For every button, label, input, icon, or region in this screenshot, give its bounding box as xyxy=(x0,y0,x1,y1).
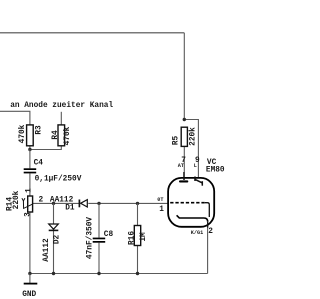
svg-text:2: 2 xyxy=(39,197,44,205)
potentiometer R14 xyxy=(28,196,33,212)
wire bottom ground rail xyxy=(30,273,208,275)
svg-text:0T: 0T xyxy=(157,197,163,203)
wire C8 bottom plate to ground rail xyxy=(98,243,100,274)
svg-text:1: 1 xyxy=(25,188,33,193)
resistor R16 xyxy=(134,226,140,246)
capacitor C4 xyxy=(24,168,37,170)
capacitor C8 xyxy=(93,238,106,240)
svg-text:an Anode zueiter Kanal: an Anode zueiter Kanal xyxy=(10,102,113,110)
tube pin 1 grid (dashed) xyxy=(170,202,205,204)
svg-text:3: 3 xyxy=(24,212,32,217)
wire C4 bottom plate to R14 xyxy=(29,173,31,196)
tube pin 9 deflection electrode xyxy=(194,177,196,182)
node junction ground rail left xyxy=(28,272,31,275)
node junction R16 bottom xyxy=(136,272,139,275)
svg-text:220k: 220k xyxy=(13,190,21,209)
wire open stub to R4 top (an Anode zweiter Kanal) xyxy=(60,112,62,125)
svg-text:C8: C8 xyxy=(104,231,114,239)
svg-text:R16: R16 xyxy=(128,231,136,245)
svg-text:R3: R3 xyxy=(35,125,43,135)
svg-text:R4: R4 xyxy=(52,130,60,140)
wire R3 bottom to node xyxy=(29,146,31,150)
svg-text:D2: D2 xyxy=(53,235,61,245)
wire D1 cathode to tube pin 1 xyxy=(88,202,168,204)
svg-text:470k: 470k xyxy=(64,126,72,145)
svg-text:EM80: EM80 xyxy=(206,167,225,175)
svg-text:47nF/350V: 47nF/350V xyxy=(86,217,94,259)
wire branch to tube pin 9 xyxy=(184,120,198,179)
svg-text:VC: VC xyxy=(207,159,217,167)
svg-text:AA112: AA112 xyxy=(50,197,74,205)
resistor R4 xyxy=(58,125,65,146)
svg-text:1M: 1M xyxy=(140,232,148,242)
node junction R3/R4/C4 xyxy=(28,148,31,151)
tube cathode xyxy=(177,215,208,222)
node junction C8 bottom xyxy=(97,272,100,275)
svg-text:1: 1 xyxy=(159,206,164,214)
diode D2 xyxy=(49,224,59,229)
wire tube pin 2 to ground rail xyxy=(207,227,209,274)
svg-text:C4: C4 xyxy=(34,160,44,168)
node junction D2 top xyxy=(52,202,55,205)
wire R5 bottom to tube pin 7 xyxy=(183,146,185,180)
diode D1 xyxy=(81,200,88,207)
wire R16 bottom to ground rail xyxy=(137,246,139,274)
wire R4 bottom to node xyxy=(30,146,61,150)
node junction at R5 top xyxy=(183,118,186,121)
svg-text:R5: R5 xyxy=(172,136,180,146)
tube pin 7 stub and triode anode plate xyxy=(183,172,185,180)
wire R14 wiper to D1 anode xyxy=(33,202,80,204)
wire from left edge to R3 top xyxy=(0,111,30,125)
tube grid 1 hook to pin 2 xyxy=(205,203,210,217)
ground xyxy=(29,274,31,284)
svg-text:0,1µF/250V: 0,1µF/250V xyxy=(35,176,82,184)
wire node to C8 top plate xyxy=(98,203,100,237)
svg-text:220k: 220k xyxy=(189,127,197,146)
wire node to C4 top plate xyxy=(29,150,31,169)
svg-text:D1: D1 xyxy=(65,204,75,212)
svg-text:AA112: AA112 xyxy=(43,238,51,262)
wire node to R16 top xyxy=(137,203,139,225)
node junction C8 top xyxy=(97,202,100,205)
resistor R3 xyxy=(27,125,34,146)
tube pin 2 stub xyxy=(207,222,209,228)
wire node to D2 anode xyxy=(53,203,55,224)
svg-text:2: 2 xyxy=(208,228,213,236)
wire vertical drop to R5 node xyxy=(183,33,185,120)
svg-text:470k: 470k xyxy=(19,124,27,143)
node junction R16 top xyxy=(136,202,139,205)
wire D2 cathode to ground rail xyxy=(53,231,55,274)
node junction D2 bottom xyxy=(52,272,55,275)
svg-text:K/G1: K/G1 xyxy=(191,230,203,236)
svg-text:L: L xyxy=(194,163,197,169)
wire top supply rail xyxy=(0,32,184,34)
svg-text:AT: AT xyxy=(178,163,184,169)
resistor R5 xyxy=(181,127,187,146)
tube U1 EM80 envelope xyxy=(168,178,214,227)
svg-text:GND: GND xyxy=(22,291,36,299)
wire R14 bottom to ground rail xyxy=(29,212,31,274)
